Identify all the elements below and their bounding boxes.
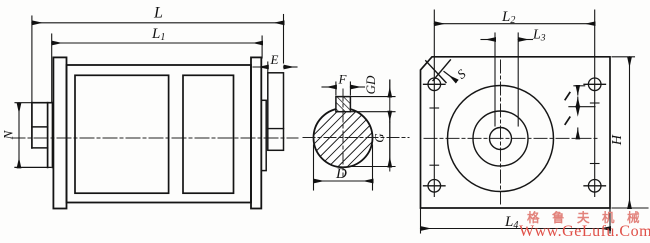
bolt hole bottom-left bbox=[424, 180, 446, 193]
svg-text:L4: L4 bbox=[504, 214, 518, 231]
dimension L4 bbox=[421, 208, 611, 233]
front shaft line bbox=[268, 128, 284, 130]
spigot middle circle bbox=[473, 111, 528, 166]
front flange disc bbox=[268, 73, 284, 151]
body window 1 bbox=[75, 75, 169, 193]
front bearing boss bbox=[261, 100, 266, 170]
corner chamfer mark bbox=[426, 60, 451, 83]
dimension E bbox=[253, 62, 297, 72]
svg-text:L3: L3 bbox=[532, 28, 546, 44]
dimension H bbox=[612, 57, 648, 208]
dimension D bbox=[314, 145, 373, 190]
flange centerlines bbox=[424, 60, 598, 204]
dimension L1 bbox=[52, 34, 262, 102]
dimension GD bbox=[350, 80, 395, 171]
bolt hole vertical axes / L2 extension lines bbox=[434, 10, 594, 197]
dimension L3 bbox=[481, 33, 533, 126]
svg-text:N: N bbox=[1, 129, 16, 140]
dimension N (rear hub) bbox=[15, 103, 31, 168]
bolt hole top-left bbox=[424, 78, 446, 91]
watermark chinese bbox=[527, 207, 650, 226]
watermark url bbox=[519, 223, 650, 241]
small dimension l (hole row to line) bbox=[569, 86, 595, 107]
svg-text:S: S bbox=[454, 66, 469, 82]
rear shaft stub bbox=[32, 127, 48, 148]
centerline (side view horizontal axis) bbox=[11, 137, 298, 139]
dimension L bbox=[32, 15, 284, 102]
axis tick marks bbox=[430, 103, 599, 165]
dimension G bbox=[352, 122, 395, 167]
small dimension l1 (line to center) bbox=[577, 107, 579, 139]
svg-text:D: D bbox=[335, 166, 347, 182]
svg-text:H: H bbox=[610, 134, 625, 146]
right end plate bbox=[251, 57, 261, 208]
shaft section circle bbox=[314, 108, 373, 167]
bolt hole bottom-right bbox=[584, 180, 606, 193]
dimension L2 bbox=[434, 23, 594, 25]
svg-text:F: F bbox=[338, 72, 348, 87]
rear hub bbox=[15, 103, 53, 168]
S leader arrow bbox=[444, 72, 457, 82]
shaft hole circle bbox=[490, 128, 512, 150]
body window 2 bbox=[183, 75, 234, 193]
section centerlines bbox=[303, 89, 409, 177]
svg-text:G: G bbox=[372, 133, 387, 143]
svg-text:E: E bbox=[270, 52, 279, 67]
bolt hole top-right bbox=[584, 78, 606, 91]
svg-text:L1: L1 bbox=[151, 26, 165, 43]
left end plate bbox=[53, 57, 66, 208]
motor body outline bbox=[67, 65, 252, 203]
dimension F bbox=[322, 82, 365, 95]
flange plate bbox=[421, 57, 611, 208]
svg-text:L2: L2 bbox=[501, 9, 515, 26]
svg-text:L: L bbox=[153, 5, 163, 22]
spigot outer circle bbox=[448, 86, 554, 192]
key bbox=[336, 97, 351, 112]
svg-text:GD: GD bbox=[363, 75, 378, 94]
